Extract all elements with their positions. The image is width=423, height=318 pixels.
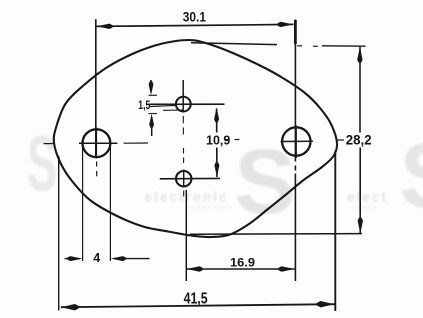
svg-text:elect: elect xyxy=(347,190,388,205)
svg-text:S: S xyxy=(27,119,57,207)
svg-text:S: S xyxy=(399,125,423,227)
svg-text:10,9: 10,9 xyxy=(206,133,230,147)
svg-text:components: components xyxy=(187,205,233,211)
svg-text:compo: compo xyxy=(353,205,378,211)
svg-text:4: 4 xyxy=(93,251,100,265)
svg-text:1,5: 1,5 xyxy=(138,100,150,112)
svg-text:28,2: 28,2 xyxy=(346,131,372,147)
svg-text:16.9: 16.9 xyxy=(230,257,255,269)
svg-text:30.1: 30.1 xyxy=(183,9,206,25)
svg-text:41,5: 41,5 xyxy=(184,290,208,307)
svg-text:S: S xyxy=(234,131,295,233)
